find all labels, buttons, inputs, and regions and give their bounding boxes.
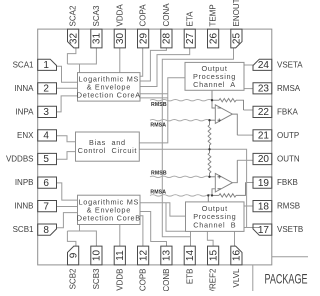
node junction at 208.3,195.4 [207, 194, 209, 196]
op-amp A1 (upper) [215, 105, 232, 124]
svg-text:25: 25 [232, 33, 243, 45]
pin 12 box (COPB) [138, 246, 149, 265]
wire SCB3 up joining row [67, 231, 96, 246]
svg-text:FBKA: FBKA [277, 108, 299, 117]
wire OUTN into pin 20 [237, 159, 253, 161]
svg-text:ENX: ENX [17, 131, 34, 140]
svg-text:1: 1 [43, 60, 49, 71]
wire Bias reference row to VSETB column [139, 149, 246, 227]
svg-text:PACKAGE: PACKAGE [265, 271, 308, 287]
pin 31 box (SCA3) [91, 29, 102, 48]
svg-text:Detection CoreA: Detection CoreA [77, 91, 141, 100]
wire OUTP into pin 21 [237, 134, 253, 136]
wire op-amp A2 output to OUTN [232, 160, 237, 182]
wire INPA to CoreA [57, 96, 78, 112]
pin 15 box (VREF2) [208, 246, 219, 265]
svg-text:TEMP: TEMP [209, 4, 218, 26]
svg-text:SCB2: SCB2 [69, 268, 78, 289]
resistor R1 (feedback, upper) [212, 99, 219, 101]
resistor R4 (feedback, lower) [212, 194, 219, 196]
pin 18 box (RMSB) [253, 201, 272, 212]
node RMSB (upper wavy line) [150, 100, 212, 101]
pin 7 box (INNB) [38, 201, 57, 212]
wire SCA2 jog down [67, 48, 76, 64]
svg-text:21: 21 [258, 131, 270, 142]
svg-text:VSETA: VSETA [277, 60, 303, 69]
node junction at 209.5,120.2 [208, 119, 210, 121]
wire Channel A to RMSA pin [244, 88, 253, 90]
pin 1 box (SCA1) [38, 59, 57, 70]
svg-text:29: 29 [138, 33, 149, 45]
svg-text:OUTN: OUTN [277, 155, 300, 164]
svg-text:RMSB: RMSB [277, 202, 300, 211]
svg-text:INNA: INNA [14, 84, 34, 93]
pin 8 box (SCB1) [38, 224, 57, 235]
node junction at 209.5,176.8 [208, 176, 210, 178]
svg-text:ETB: ETB [185, 269, 194, 285]
pin 5 box (VDDBS) [38, 153, 57, 164]
pin 30 box (VDDA) [114, 29, 125, 48]
resistor R2 (chain upper) [209, 120, 211, 125]
svg-text:4: 4 [43, 131, 49, 142]
wire Channel A to VSETA [244, 64, 253, 66]
block Bias and Control Circuit [76, 132, 140, 161]
node junction at 212,100.2 [211, 99, 213, 101]
wire Channel A input line down to Bias [139, 78, 185, 143]
block Output Processing Channel A [185, 62, 244, 90]
pin 27 box (ETA) [184, 29, 195, 48]
wire INNB to CoreB [57, 206, 78, 208]
pin 26 box (TEMP) [208, 29, 219, 48]
svg-text:26: 26 [208, 33, 219, 45]
wire SCB2 jog up [67, 231, 76, 246]
wire Channel A to RMSB node [211, 90, 213, 100]
svg-text:COPB: COPB [139, 269, 148, 292]
figure callout line (horizontal, right of chip) [272, 256, 308, 258]
wire ETA to CoreA right [140, 48, 190, 87]
svg-text:9: 9 [68, 252, 79, 258]
svg-text:INPA: INPA [15, 108, 34, 117]
svg-text:27: 27 [185, 33, 196, 45]
svg-text:VDDBS: VDDBS [6, 155, 34, 164]
pin 21 box (OUTP) [253, 130, 272, 141]
svg-text:CONB: CONB [162, 269, 171, 292]
svg-text:28: 28 [162, 33, 173, 45]
svg-text:SCB3: SCB3 [92, 268, 101, 289]
node junction at 212,195.4 [211, 194, 213, 196]
pin 13 box (CONB) [161, 246, 172, 265]
svg-text:22: 22 [258, 107, 270, 118]
svg-text:VSETB: VSETB [277, 225, 303, 234]
svg-text:13: 13 [162, 250, 173, 262]
pin 20 box (OUTN) [253, 153, 272, 164]
svg-text:VDDB: VDDB [115, 269, 124, 291]
svg-text:Control Circuit: Control Circuit [78, 146, 137, 155]
svg-text:12: 12 [138, 250, 149, 262]
svg-text:CONA: CONA [162, 3, 171, 27]
chip package outline U1 [38, 29, 272, 265]
wire SCA3 down joining row [67, 48, 96, 64]
svg-text:31: 31 [92, 33, 103, 45]
wire FBKA into pin 22 [244, 109, 254, 111]
svg-text:23: 23 [258, 84, 270, 95]
svg-text:VLVL: VLVL [232, 268, 241, 288]
svg-text:5: 5 [43, 154, 49, 165]
figure callout line (vertical, below chip) [252, 265, 254, 291]
wire SCB2/SCB3 into CoreB bottom [79, 225, 81, 232]
svg-text:Channel B: Channel B [193, 220, 236, 229]
svg-text:SCA3: SCA3 [92, 5, 101, 26]
svg-text:7: 7 [43, 201, 49, 212]
svg-text:RMSA: RMSA [150, 123, 166, 129]
svg-text:SCA2: SCA2 [69, 5, 78, 26]
svg-text:FBKB: FBKB [277, 178, 298, 187]
svg-text:Detection CoreB: Detection CoreB [77, 214, 141, 223]
svg-text:COPA: COPA [139, 4, 148, 27]
block Logarithmic MS and Envelope Detection CoreA [77, 73, 141, 102]
op-amp A2 (lower) [215, 173, 232, 192]
svg-text:16: 16 [232, 250, 243, 262]
svg-text:10: 10 [92, 250, 103, 262]
pin 2 box (INNA) [38, 83, 57, 94]
pin 32 box (SCA2) [68, 29, 79, 48]
wire ENX to Bias [57, 136, 76, 142]
svg-text:VREF2: VREF2 [209, 268, 218, 291]
wire RMSA node to Channel B top [207, 195, 209, 202]
wire FBKB into pin 19 [246, 182, 254, 184]
pin 25 box (ENOUT) [231, 29, 242, 48]
pin 14 box (ETB) [184, 246, 195, 265]
wire SCA1 to CoreA [57, 66, 78, 82]
wire CoreB row down to Channel B corner [166, 203, 186, 231]
pin 10 box (SCB3) [91, 246, 102, 265]
svg-text:24: 24 [258, 60, 270, 71]
svg-text:ETA: ETA [185, 11, 194, 27]
pin 19 box (FBKB) [253, 177, 272, 188]
svg-text:RMSA: RMSA [277, 84, 301, 93]
svg-text:14: 14 [185, 250, 196, 262]
node RMSA (lower wavy line) [150, 195, 212, 196]
svg-text:6: 6 [43, 178, 49, 189]
wire CONA to CoreA right [140, 48, 166, 81]
node RMSA (upper wavy line) [150, 120, 210, 121]
wire SCB1 to CoreB [57, 213, 78, 228]
wire VDDB to CoreB bottom [119, 225, 121, 247]
pin 3 box (INPA) [38, 106, 57, 117]
wire op-amp A1 output to OUTP [232, 114, 237, 135]
wire ENOUT down mid column [162, 48, 233, 237]
wire CoreA output 1 [140, 93, 168, 95]
svg-text:8: 8 [43, 225, 49, 236]
wire VDDA to CoreA top [119, 48, 121, 73]
pin 4 box (ENX) [38, 130, 57, 141]
pin 22 box (FBKA) [253, 106, 272, 117]
svg-text:INNB: INNB [14, 202, 33, 211]
block Logarithmic MS and Envelope Detection CoreB [77, 195, 141, 224]
pin 11 box (VDDB) [114, 246, 125, 265]
svg-text:17: 17 [258, 225, 270, 236]
svg-text:Channel A: Channel A [193, 80, 236, 89]
wire COPB to CoreB right [140, 216, 143, 246]
svg-text:SCA1: SCA1 [13, 60, 34, 69]
svg-text:30: 30 [115, 33, 126, 45]
pin 24 box (VSETA) [253, 59, 272, 70]
svg-text:3: 3 [43, 107, 49, 118]
wire ETB from Channel B bottom [190, 231, 192, 246]
wire INPB to CoreB [57, 183, 78, 200]
svg-text:ENOUT: ENOUT [232, 0, 241, 27]
pin 6 box (INPB) [38, 177, 57, 188]
node junction at 209.5,149.3 [208, 148, 210, 150]
wire CONB from CoreB via low jog [140, 212, 167, 247]
svg-text:11: 11 [115, 250, 126, 261]
svg-text:19: 19 [258, 178, 270, 189]
node RMSB (lower wavy line) [150, 176, 210, 177]
wire Channel B to RMSB pin [244, 205, 253, 207]
wire INNA to CoreA [57, 87, 78, 89]
pin 28 box (CONA) [161, 29, 172, 48]
pin 29 box (COPA) [138, 29, 149, 48]
pin 17 box (VSETB) [253, 224, 272, 235]
svg-text:2: 2 [43, 84, 49, 95]
svg-text:OUTP: OUTP [277, 131, 299, 140]
svg-text:RMSB: RMSB [151, 171, 167, 177]
svg-text:VDDA: VDDA [115, 4, 124, 27]
svg-text:18: 18 [258, 201, 270, 212]
wire COPA to CoreA right [140, 48, 143, 76]
resistor R3 (chain lower) [209, 149, 211, 153]
wire Channel B to VSETB [244, 227, 260, 229]
wire VLVL from Channel B bottom [234, 231, 236, 246]
svg-text:RMSB: RMSB [151, 102, 167, 108]
pin 16 box (VLVL) [231, 246, 242, 265]
pin 9 box (SCB2) [68, 246, 79, 265]
svg-text:32: 32 [68, 33, 79, 45]
wire SCA2/SCA3 into CoreA top [79, 64, 81, 73]
svg-text:20: 20 [258, 154, 270, 165]
block Output Processing Channel B [186, 202, 245, 232]
wire CoreA output 2 [140, 97, 168, 99]
wire VDDBS to Bias [57, 152, 76, 160]
wire CoreB output to Channel B left [140, 203, 186, 216]
svg-text:15: 15 [208, 250, 219, 262]
wire VREF2 from Channel B bottom [207, 231, 213, 246]
svg-text:SCB1: SCB1 [13, 225, 34, 234]
pin 23 box (RMSA) [253, 83, 272, 94]
svg-text:INPB: INPB [15, 178, 34, 187]
svg-text:RMSA: RMSA [150, 189, 166, 195]
